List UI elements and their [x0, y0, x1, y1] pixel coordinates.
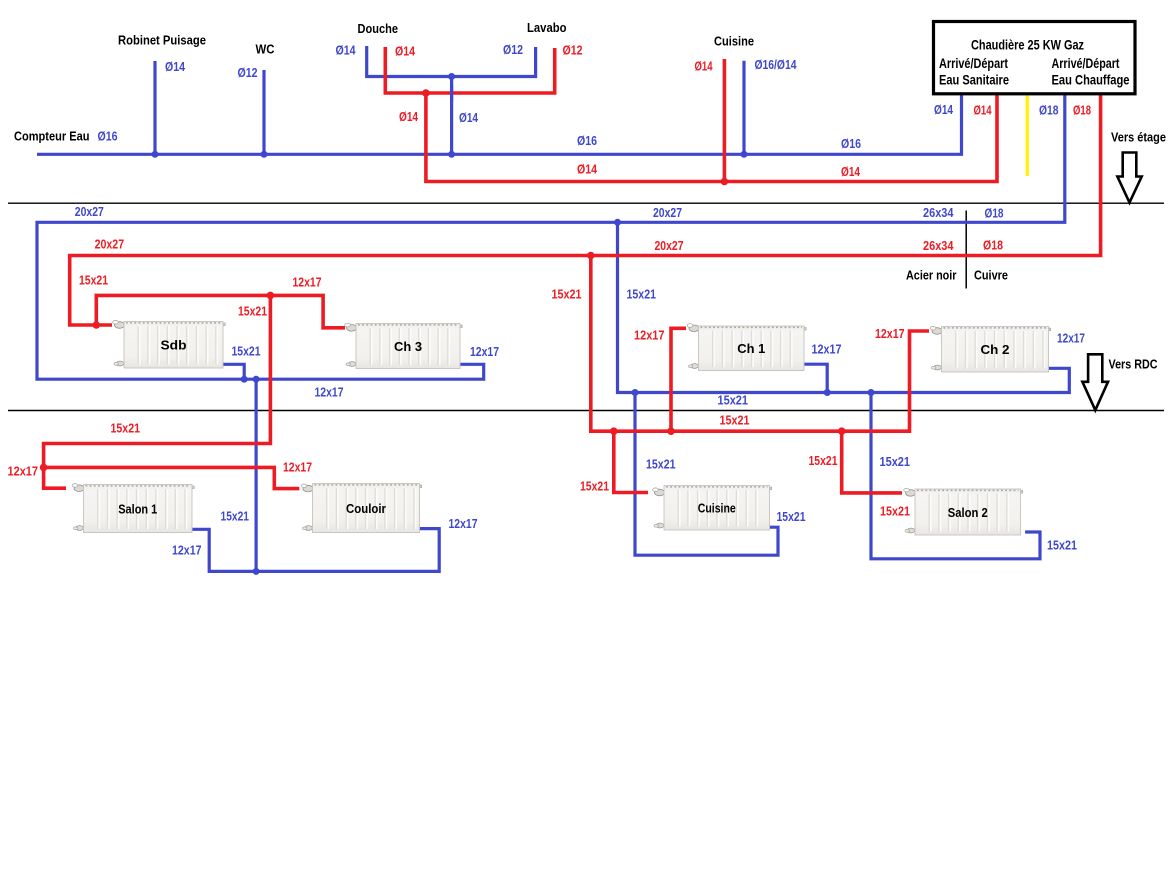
svg-text:Ø18: Ø18: [1039, 103, 1059, 118]
svg-text:Ø14: Ø14: [934, 102, 954, 117]
svg-text:Douche: Douche: [358, 21, 399, 36]
svg-text:Ø12: Ø12: [563, 43, 583, 58]
svg-text:20x27: 20x27: [653, 205, 682, 220]
svg-text:Chaudière 25 KW Gaz: Chaudière 25 KW Gaz: [971, 37, 1084, 52]
svg-text:Eau Chauffage: Eau Chauffage: [1052, 73, 1130, 88]
svg-text:12x17: 12x17: [449, 516, 478, 531]
svg-text:15x21: 15x21: [580, 479, 609, 494]
svg-text:Eau Sanitaire: Eau Sanitaire: [939, 73, 1009, 88]
svg-text:12x17: 12x17: [8, 464, 39, 479]
svg-text:15x21: 15x21: [111, 421, 141, 436]
svg-text:Vers RDC: Vers RDC: [1109, 357, 1159, 372]
svg-text:Acier noir: Acier noir: [906, 267, 957, 282]
svg-text:20x27: 20x27: [655, 238, 684, 253]
svg-text:Ø16: Ø16: [98, 129, 118, 144]
svg-text:Cuisine: Cuisine: [698, 501, 736, 516]
svg-text:15x21: 15x21: [720, 413, 750, 428]
svg-text:12x17: 12x17: [875, 326, 905, 341]
svg-text:Ø12: Ø12: [503, 42, 523, 57]
svg-text:Compteur Eau: Compteur Eau: [14, 129, 90, 144]
svg-text:15x21: 15x21: [777, 509, 806, 524]
svg-text:Ø14: Ø14: [841, 164, 861, 179]
svg-text:26x34: 26x34: [923, 205, 954, 220]
svg-text:Ø16: Ø16: [841, 136, 861, 151]
svg-text:15x21: 15x21: [718, 393, 749, 408]
svg-text:12x17: 12x17: [283, 460, 312, 475]
svg-text:12x17: 12x17: [1057, 331, 1085, 346]
svg-text:Ø16: Ø16: [577, 133, 597, 148]
svg-text:Salon 2: Salon 2: [948, 505, 988, 520]
svg-text:Ø14: Ø14: [974, 103, 993, 118]
svg-text:Ch 1: Ch 1: [737, 341, 765, 356]
svg-text:WC: WC: [256, 42, 276, 57]
svg-text:Cuisine: Cuisine: [714, 34, 754, 49]
svg-text:12x17: 12x17: [172, 543, 202, 558]
svg-text:15x21: 15x21: [552, 287, 582, 302]
svg-text:Arrivé/Départ: Arrivé/Départ: [939, 56, 1008, 71]
svg-text:Cuivre: Cuivre: [974, 267, 1008, 282]
svg-text:12x17: 12x17: [470, 344, 499, 359]
svg-text:15x21: 15x21: [627, 287, 657, 302]
svg-text:Couloir: Couloir: [346, 501, 386, 516]
svg-text:12x17: 12x17: [315, 385, 344, 400]
svg-text:Ø12: Ø12: [238, 65, 258, 80]
svg-text:Ch 3: Ch 3: [394, 339, 422, 354]
svg-text:15x21: 15x21: [880, 454, 911, 469]
svg-text:Salon 1: Salon 1: [118, 501, 157, 516]
svg-text:15x21: 15x21: [1047, 538, 1077, 553]
svg-text:Ø18: Ø18: [985, 206, 1004, 221]
svg-text:20x27: 20x27: [75, 204, 104, 219]
svg-text:Ø14: Ø14: [459, 110, 479, 125]
svg-text:Ø14: Ø14: [395, 44, 416, 59]
svg-text:12x17: 12x17: [634, 328, 665, 343]
svg-text:15x21: 15x21: [221, 509, 250, 524]
svg-text:Ø18: Ø18: [1073, 103, 1091, 118]
svg-text:Ø14: Ø14: [399, 109, 419, 124]
svg-text:Ø14: Ø14: [165, 59, 186, 74]
svg-text:15x21: 15x21: [79, 273, 108, 288]
svg-text:15x21: 15x21: [232, 344, 261, 359]
svg-text:Arrivé/Départ: Arrivé/Départ: [1052, 56, 1120, 71]
svg-text:Ø14: Ø14: [577, 162, 598, 177]
svg-text:Lavabo: Lavabo: [527, 20, 567, 35]
svg-text:15x21: 15x21: [880, 504, 910, 519]
svg-text:15x21: 15x21: [809, 453, 838, 468]
svg-text:12x17: 12x17: [812, 342, 842, 357]
svg-text:15x21: 15x21: [238, 304, 267, 319]
svg-text:Sdb: Sdb: [161, 338, 187, 353]
svg-text:20x27: 20x27: [95, 237, 125, 252]
svg-text:12x17: 12x17: [293, 275, 322, 290]
svg-text:Ch 2: Ch 2: [981, 342, 1010, 357]
svg-text:Ø14: Ø14: [695, 59, 714, 74]
svg-text:26x34: 26x34: [923, 238, 954, 253]
svg-text:Ø18: Ø18: [983, 238, 1003, 253]
svg-text:Ø16/Ø14: Ø16/Ø14: [755, 57, 798, 72]
svg-text:Ø14: Ø14: [336, 43, 357, 58]
svg-text:Vers étage: Vers étage: [1111, 129, 1166, 144]
svg-text:15x21: 15x21: [646, 457, 676, 472]
svg-text:Robinet Puisage: Robinet Puisage: [118, 33, 206, 48]
